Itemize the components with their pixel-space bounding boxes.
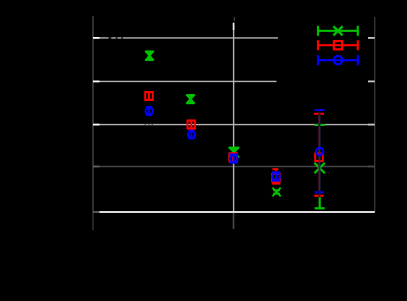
green point 5 large errorbar (314, 125, 324, 209)
green point 1 errorbar (145, 51, 153, 61)
blue point 3 errorbar + circle (230, 155, 238, 163)
red point 1 errorbar + square (145, 92, 153, 100)
legend entry blue (318, 55, 358, 65)
gridline y3 (93, 124, 375, 126)
bottom border dark left stub (93, 211, 100, 213)
red point 4 errorbar + square (272, 169, 280, 184)
right y-ticks (368, 38, 375, 125)
center line below-axis extension (233, 213, 235, 229)
legend entry green (318, 26, 358, 36)
left y-ticks (white) (93, 38, 100, 125)
left border below-axis extension (92, 213, 94, 230)
center line top tick (bright) (233, 23, 235, 30)
red point 3 errorbar + square (229, 153, 237, 161)
errorbar crossing notches (downscale artifacts) (318, 109, 320, 198)
legend entry red (318, 40, 358, 50)
blue point 1 errorbar + circle (146, 107, 153, 115)
right y-tick 4 (dim) (368, 166, 375, 168)
red point 5 large errorbar + square (314, 114, 324, 196)
left border (dark) (92, 16, 94, 213)
green point 3 errorbar (229, 147, 239, 158)
green point 4 errorbar (tight caps, open X) (273, 188, 281, 197)
bottom border (100, 211, 375, 213)
faint black text patches over gridline y3 (145, 124, 154, 126)
gridline y4 (AA-dimmed, falls between pixel rows) (93, 166, 375, 168)
blue point 4 errorbar + circle (272, 172, 280, 180)
green point 2 errorbar (186, 95, 194, 104)
gridline y1 (top, ends at legend box) (100, 37, 279, 39)
blue point 5 large errorbar + circle (315, 110, 325, 192)
black text gaps over gridline y1 (108, 37, 123, 39)
gridline y2 (ends at legend box) (93, 80, 277, 82)
right border (374, 17, 376, 213)
left y-tick 4 (dim) (93, 166, 100, 168)
blue point 2 errorbar + circle (188, 131, 195, 139)
red point 2 errorbar + square (187, 120, 195, 128)
center vertical gridline x=233.5 (233, 23, 235, 212)
center line top dark stub (233, 17, 235, 21)
